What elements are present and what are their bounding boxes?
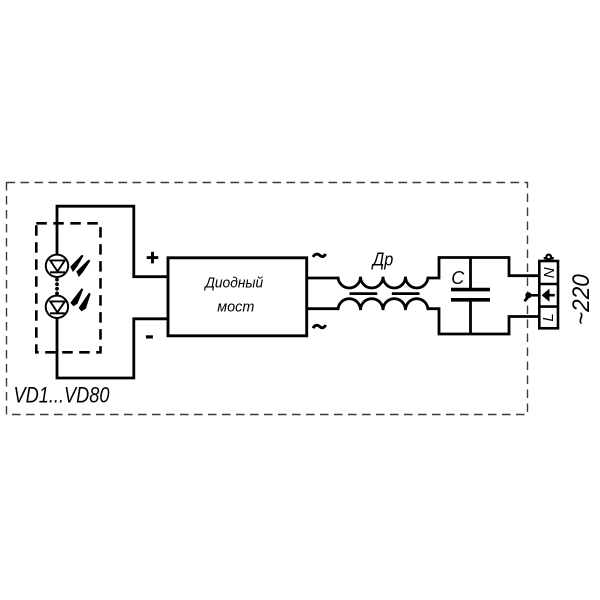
connector cell divider bottom bbox=[539, 305, 558, 308]
LED VD1 emission arrow a bbox=[70, 255, 83, 272]
svg-text:C: C bbox=[451, 268, 465, 288]
wire: LED chain top to bridge + input bbox=[57, 206, 168, 277]
choke core bar right bbox=[392, 292, 420, 295]
label ~ (top AC) bbox=[313, 254, 326, 257]
PE arrow in middle cell bbox=[542, 289, 555, 302]
svg-text:Диодный: Диодный bbox=[203, 275, 263, 292]
diode bridge U1 box bbox=[168, 258, 307, 336]
LED VD80 emission arrow b bbox=[79, 293, 91, 312]
label ~ (bottom AC) bbox=[313, 325, 326, 328]
svg-text:L: L bbox=[540, 313, 557, 321]
choke core bar left bbox=[350, 292, 378, 295]
junction blob on PE stub bbox=[525, 292, 540, 301]
wire: choke top to capacitor top rail and connector N bbox=[428, 258, 539, 279]
wire: bridge - output to LED chain bottom bbox=[57, 318, 168, 378]
LED module dashed box bbox=[36, 223, 100, 352]
svg-text:N: N bbox=[541, 267, 558, 278]
series dots between LEDs bbox=[55, 278, 59, 296]
choke L1 bottom winding bbox=[338, 299, 428, 310]
choke L1 top winding bbox=[338, 277, 428, 288]
wire: choke bottom to capacitor bottom rail and connector L bbox=[428, 309, 539, 334]
capacitor C1 bbox=[451, 258, 490, 335]
connector cell divider top bbox=[539, 283, 558, 286]
dashed enclosure border (luminaire boundary) bbox=[7, 183, 528, 415]
connector X1 body bbox=[539, 261, 558, 328]
svg-text:~220: ~220 bbox=[568, 273, 595, 325]
LED VD1 emission arrow b bbox=[76, 260, 90, 278]
label - (minus terminal) bbox=[146, 335, 153, 338]
svg-text:мост: мост bbox=[217, 299, 254, 316]
label + (plus terminal) bbox=[147, 252, 159, 264]
LED VD1 (top) bbox=[46, 255, 68, 277]
svg-text:VD1...VD80: VD1...VD80 bbox=[14, 383, 111, 408]
LED VD80 (bottom) bbox=[46, 296, 68, 318]
svg-text:Др: Др bbox=[371, 249, 393, 270]
LED VD80 emission arrow a bbox=[70, 288, 83, 306]
wire: bridge AC top to choke bbox=[307, 277, 338, 280]
wire: bridge AC bottom to choke bbox=[307, 307, 338, 310]
screw terminal on connector top bbox=[544, 255, 554, 260]
